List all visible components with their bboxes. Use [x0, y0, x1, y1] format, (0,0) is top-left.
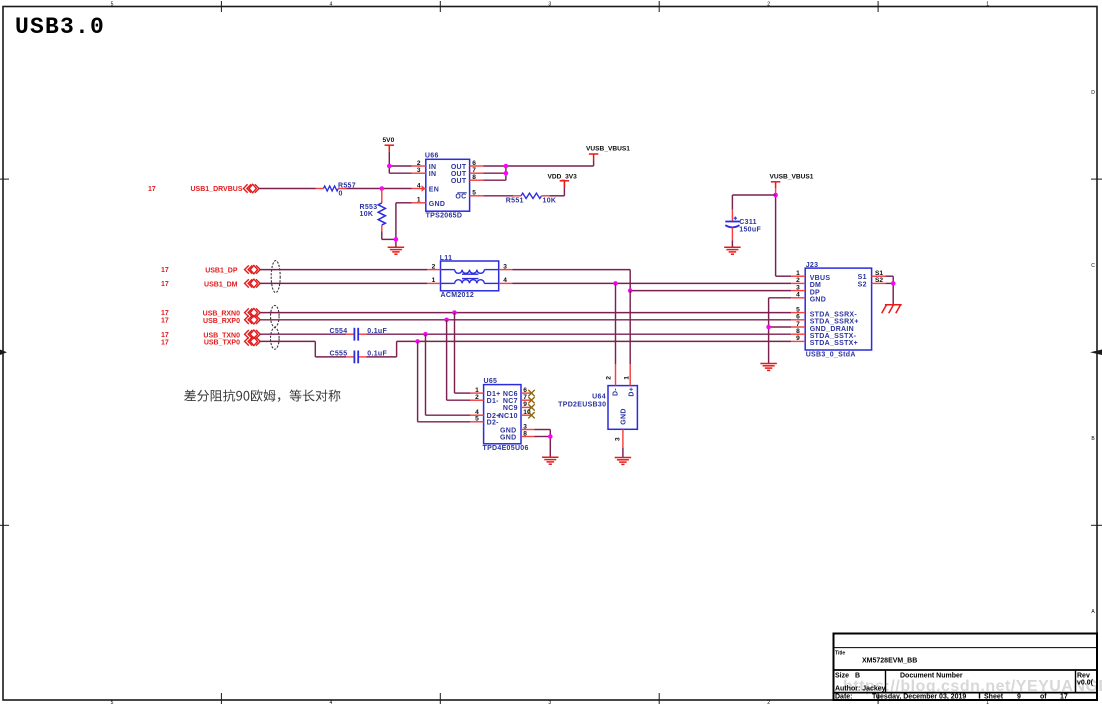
svg-text:J23: J23 [806, 262, 819, 269]
wire U64 GND to ground [622, 448, 624, 457]
off-page connector USB_TXN0 [161, 330, 260, 339]
junction U65 GND [548, 434, 553, 439]
junction TXP0 tap [415, 339, 420, 344]
svg-text:TPS2065D: TPS2065D [426, 213, 463, 220]
svg-text:8: 8 [796, 328, 800, 335]
svg-text:S2: S2 [858, 281, 867, 288]
power symbol 5V0 [383, 137, 395, 166]
svg-text:NC6: NC6 [503, 391, 518, 398]
svg-text:Sheet: Sheet [984, 694, 1004, 701]
junction EN/R553 [380, 186, 385, 191]
svg-text:VUSB_VBUS1: VUSB_VBUS1 [770, 174, 814, 181]
junction RXN0 tap [452, 310, 457, 315]
svg-text:DM: DM [810, 282, 822, 289]
svg-text:150uF: 150uF [739, 227, 761, 234]
resistor R551 10K [506, 193, 556, 204]
junction OUT 6/7 [504, 164, 509, 169]
svg-text:D: D [1091, 90, 1095, 96]
svg-text:L11: L11 [440, 255, 453, 262]
svg-text:GND: GND [500, 427, 516, 434]
svg-text:STDA_SSRX-: STDA_SSRX- [810, 311, 858, 318]
svg-text:17: 17 [161, 339, 169, 346]
svg-text:OUT: OUT [451, 164, 467, 171]
wire C555 to J23 pin9 [367, 341, 792, 357]
svg-text:U65: U65 [484, 378, 498, 385]
ground (C311) [724, 247, 741, 254]
svg-text:Author: Jackey: Author: Jackey [835, 686, 886, 693]
wire C554 to J23 pin8 [367, 333, 792, 335]
off-page connector USB1_DRVBUS [148, 184, 259, 193]
svg-text:VBUS: VBUS [810, 275, 831, 282]
capacitor C555 0.1uF [330, 350, 388, 363]
svg-text:C311: C311 [739, 219, 757, 226]
svg-text:4: 4 [417, 182, 421, 189]
wire USB1_DP to L11 pin2 [260, 269, 427, 271]
wire USB_RXN0 to J23 pin5 [260, 312, 791, 314]
svg-text:C554: C554 [330, 328, 348, 335]
junction GND net [394, 237, 399, 242]
svg-text:USB_TXN0: USB_TXN0 [203, 332, 240, 339]
svg-text:Title: Title [835, 651, 845, 657]
wire USB_RXP0 to J23 pin6 [260, 319, 791, 321]
power symbol VUSB_VBUS1 [586, 145, 630, 160]
svg-text:9: 9 [523, 401, 527, 408]
svg-text:6: 6 [523, 387, 527, 394]
svg-text:1: 1 [623, 376, 630, 380]
svg-text:R551: R551 [506, 197, 524, 204]
svg-text:OUT: OUT [451, 171, 467, 178]
IC U66 TPS2065D [412, 152, 484, 219]
svg-text:2: 2 [767, 2, 770, 8]
svg-text:4: 4 [330, 2, 333, 8]
svg-text:STDA_SSTX+: STDA_SSTX+ [810, 340, 858, 347]
svg-text:C555: C555 [330, 350, 348, 357]
wire J23 shield S1/S2 [886, 276, 894, 305]
wire J23 GND pin4 to ground [769, 298, 792, 327]
svg-text:D1+: D1+ [487, 391, 501, 398]
ground (U64) [615, 458, 632, 465]
svg-text:17: 17 [161, 281, 169, 288]
off-page connector USB1_DM [161, 279, 260, 288]
svg-text:4: 4 [796, 292, 800, 299]
svg-text:XM5728EVM_BB: XM5728EVM_BB [862, 658, 917, 665]
svg-text:Size: Size [835, 673, 849, 680]
wire U66 GND pin to ground [396, 203, 412, 247]
svg-text:Document Number: Document Number [900, 673, 963, 680]
junction 5V0/IN [387, 164, 392, 169]
svg-text:EN: EN [429, 187, 439, 194]
svg-text:VDD_3V3: VDD_3V3 [548, 173, 578, 180]
svg-text:S2: S2 [875, 277, 883, 284]
svg-text:4: 4 [503, 277, 507, 284]
svg-text:USB1_DP: USB1_DP [205, 268, 238, 275]
svg-text:5: 5 [111, 700, 114, 705]
IC U65 TPD4E05U06 [470, 378, 535, 452]
junction J23 GND net [766, 325, 771, 330]
power symbol VUSB_VBUS1 (J23) [770, 174, 814, 196]
svg-text:GND: GND [810, 297, 826, 304]
svg-text:STDA_SSTX-: STDA_SSTX- [810, 333, 857, 340]
svg-text:C: C [1091, 263, 1095, 269]
svg-text:S1: S1 [858, 274, 867, 281]
wire DM from L11 to J23 pin2 [512, 282, 791, 284]
svg-text:2: 2 [796, 277, 800, 284]
differential pair marker TX [271, 328, 280, 350]
svg-text:2: 2 [475, 394, 479, 401]
svg-text:OUT: OUT [451, 178, 467, 185]
wire U64 pin1 riser (D+) [629, 291, 631, 365]
svg-text:GND: GND [621, 408, 628, 424]
svg-text:6: 6 [796, 314, 800, 321]
junction S1/S2 [891, 281, 896, 286]
wire R551 to VDD_3V3 [550, 181, 565, 196]
svg-text:1: 1 [475, 387, 479, 394]
wire USB_TXN0 to C554 [260, 333, 346, 335]
wire J23 GND_DRAIN pin7 [769, 327, 792, 363]
svg-text:5: 5 [472, 190, 476, 197]
wire C311 branch [732, 195, 775, 210]
junction DM to U64 [613, 281, 618, 286]
svg-text:IN: IN [429, 171, 437, 178]
svg-text:6: 6 [472, 160, 476, 167]
svg-text:2: 2 [432, 263, 436, 270]
svg-text:GND: GND [500, 434, 516, 441]
svg-text:3: 3 [503, 263, 507, 270]
svg-text:USB3.0: USB3.0 [15, 14, 105, 40]
svg-text:DP: DP [810, 289, 820, 296]
annotation: differential impedance 90 ohm, equal length symmetric [184, 390, 340, 402]
junction OUT 7/8 [504, 171, 509, 176]
svg-text:TPD4E05U06: TPD4E05U06 [483, 445, 529, 452]
svg-text:USB_RXP0: USB_RXP0 [203, 318, 240, 325]
svg-text:8: 8 [472, 174, 476, 181]
svg-text:USB3_0_StdA: USB3_0_StdA [806, 352, 856, 359]
svg-text:5: 5 [111, 2, 114, 8]
wire U65 GND pins to ground [535, 430, 551, 457]
wire R553 to ground junction [382, 232, 396, 240]
svg-text:7: 7 [472, 167, 476, 174]
wire RXP0 tap to U65 pin2 [447, 320, 470, 400]
chassis ground (shield) [882, 305, 902, 314]
wire USB_TXP0 to C555 [260, 341, 346, 357]
IC U64 TPD2EUSB30 [558, 364, 637, 447]
inductor L11 ACM2012 common-mode choke [427, 255, 512, 299]
differential pair marker DP/DM [271, 261, 280, 293]
off-page connector USB_RXP0 [161, 316, 260, 325]
svg-text:S1: S1 [875, 270, 883, 277]
svg-text:ACM2012: ACM2012 [441, 292, 475, 299]
svg-text:17: 17 [161, 310, 169, 317]
svg-text:3: 3 [548, 700, 551, 705]
wire TXP0 tap to U65 pin5 [418, 341, 470, 421]
power symbol VDD_3V3 [548, 173, 578, 187]
svg-text:USB_TXP0: USB_TXP0 [204, 340, 240, 347]
connector J23 USB3_0_StdA [791, 262, 885, 359]
svg-text:VUSB_VBUS1: VUSB_VBUS1 [586, 145, 630, 152]
svg-text:3: 3 [796, 284, 800, 291]
wire R557 to EN [347, 188, 412, 190]
svg-text:17: 17 [148, 186, 156, 193]
off-page connector USB1_DP [161, 265, 260, 274]
svg-text:17: 17 [161, 332, 169, 339]
svg-text:STDA_SSRX+: STDA_SSRX+ [810, 319, 859, 326]
svg-text:GND: GND [429, 201, 445, 208]
junction TXN0 tap [423, 332, 428, 337]
svg-text:9: 9 [1017, 694, 1021, 701]
svg-text:17: 17 [1060, 694, 1068, 701]
resistor R557 0 [316, 182, 356, 197]
svg-text:2: 2 [606, 376, 613, 380]
svg-text:GND_DRAIN: GND_DRAIN [810, 326, 854, 333]
svg-text:D2-: D2- [487, 420, 500, 427]
svg-text:3: 3 [614, 437, 621, 441]
ground (U66) [388, 247, 405, 254]
wire OC pin to R551 [484, 195, 514, 197]
wire USB1_DRVBUS to R557 [259, 188, 316, 190]
svg-text:5: 5 [475, 416, 479, 423]
resistor R553 10K [360, 189, 386, 232]
svg-text:8: 8 [523, 430, 527, 437]
capacitor C311 150uF polarized [725, 210, 761, 241]
svg-text:5: 5 [796, 306, 800, 313]
ground (U65) [542, 457, 559, 464]
svg-text:Date:: Date: [835, 694, 853, 701]
capacitor C554 0.1uF [330, 328, 388, 341]
svg-text:NC10: NC10 [499, 413, 518, 420]
svg-text:5V0: 5V0 [383, 137, 395, 144]
svg-text:IN: IN [429, 164, 437, 171]
svg-text:1: 1 [432, 277, 436, 284]
differential pair marker RX [271, 305, 280, 327]
svg-text:v0.0(: v0.0( [1077, 680, 1094, 687]
svg-text:3: 3 [523, 423, 527, 430]
wire DP from L11 to J23 DP riser [512, 270, 630, 291]
svg-text:TPD2EUSB30: TPD2EUSB30 [558, 402, 606, 409]
wire TXN0 tap to U65 pin4 [426, 334, 471, 415]
svg-text:9: 9 [796, 335, 800, 342]
svg-text:D-: D- [613, 388, 620, 396]
svg-text:Rev: Rev [1077, 673, 1090, 680]
ground (J23) [760, 364, 777, 371]
svg-text:4: 4 [330, 700, 333, 705]
wire C311 to ground [731, 241, 733, 248]
wire DP branch to J23 pin3 [630, 290, 791, 292]
svg-text:2: 2 [417, 160, 421, 167]
svg-text:USB1_DRVBUS: USB1_DRVBUS [191, 186, 243, 193]
wire U64 pin2 riser (D-) [615, 283, 617, 364]
svg-text:3: 3 [417, 167, 421, 174]
svg-text:U64: U64 [592, 393, 606, 400]
svg-text:1: 1 [986, 2, 989, 8]
svg-text:10: 10 [523, 409, 531, 416]
svg-text:10K: 10K [543, 197, 557, 204]
svg-text:USB1_DM: USB1_DM [204, 282, 238, 289]
svg-text:7: 7 [523, 394, 527, 401]
svg-text:17: 17 [161, 267, 169, 274]
svg-text:B: B [855, 673, 860, 680]
svg-text:10K: 10K [360, 211, 374, 218]
svg-text:3: 3 [548, 2, 551, 8]
svg-text:D+: D+ [628, 387, 635, 397]
svg-text:U66: U66 [425, 152, 439, 159]
svg-text:of: of [1040, 694, 1047, 701]
svg-text:NC9: NC9 [503, 405, 518, 412]
svg-text:1: 1 [417, 197, 421, 204]
svg-text:2: 2 [767, 700, 770, 705]
svg-text:17: 17 [161, 318, 169, 325]
svg-text:R553: R553 [360, 204, 378, 211]
wire USB1_DM to L11 pin1 [260, 282, 427, 284]
svg-text:1: 1 [796, 270, 800, 277]
svg-text:NC7: NC7 [503, 398, 518, 405]
svg-text:Tuesday, December 03, 2019: Tuesday, December 03, 2019 [872, 694, 966, 701]
off-page connector USB_RXN0 [161, 308, 260, 317]
svg-text:7: 7 [796, 321, 800, 328]
wire RXN0 tap to U65 pin1 [455, 313, 471, 394]
svg-text:D1-: D1- [487, 398, 500, 405]
off-page connector USB_TXP0 [161, 337, 260, 346]
wire U66 OUT pins to VUSB_VBUS1 [484, 161, 594, 181]
junction DP to U64 [628, 288, 633, 293]
svg-text:USB_RXN0: USB_RXN0 [203, 311, 240, 318]
junction RXP0 tap [444, 318, 449, 323]
wire 5V0 to U66 IN pins [389, 166, 411, 173]
svg-text:OC: OC [455, 194, 466, 201]
wire VBUS net [776, 195, 792, 276]
svg-text:0: 0 [339, 191, 343, 198]
junction VBUS/C311 [773, 193, 778, 198]
